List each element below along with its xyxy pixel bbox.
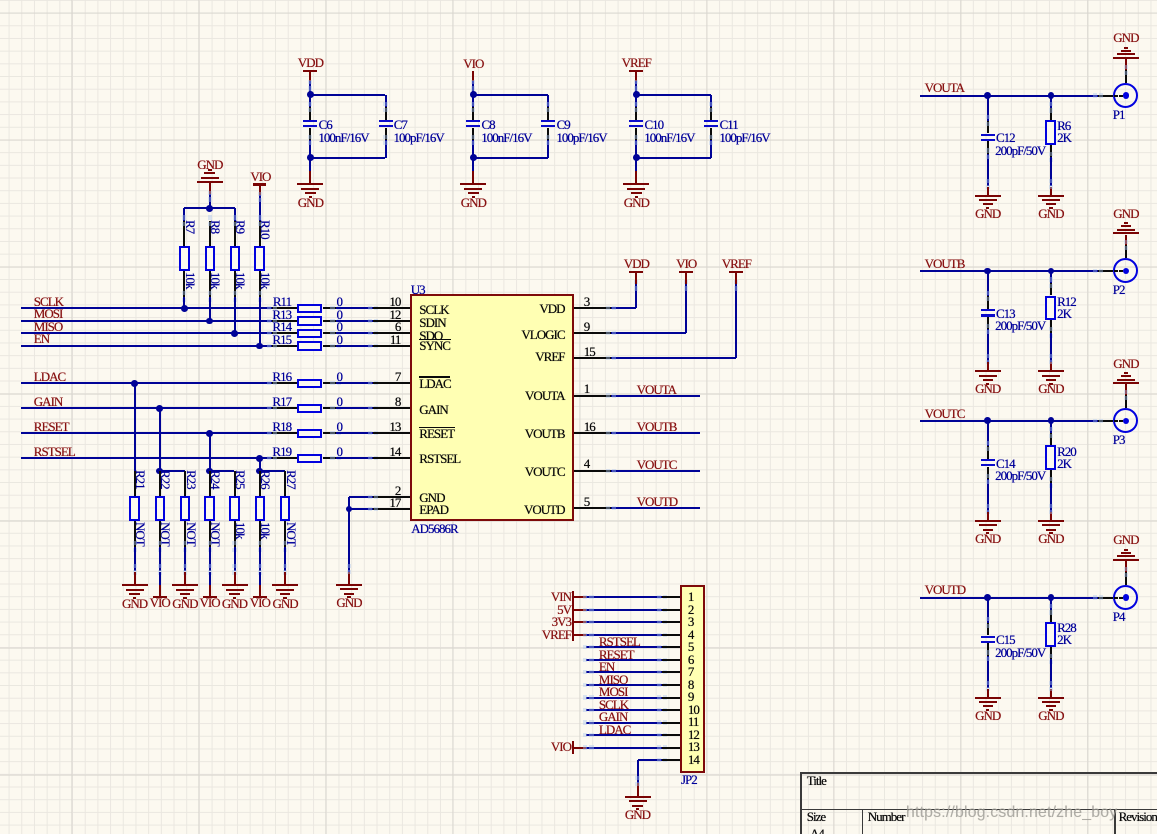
pin name VLOGIC: [475, 328, 565, 341]
pin 9 stub JP2: [662, 697, 680, 699]
wire R19 to pin 14: [336, 457, 373, 459]
ground below R20: [1038, 520, 1064, 522]
net label LDAC at JP2: [599, 723, 630, 736]
pin number 14: [360, 445, 400, 458]
net label MISO: [34, 320, 63, 333]
net label VOUTD at U3: [637, 495, 678, 508]
wire VOUTC output: [920, 420, 1098, 422]
wire R10 to row: [259, 297, 261, 346]
wire R21 to GND: [134, 547, 136, 572]
wire R27 to GND: [284, 547, 286, 572]
wire pin 9 to VIO: [611, 332, 686, 334]
resistor R8 10k: [209, 221, 211, 246]
net label MOSI at JP2: [599, 685, 628, 698]
pin name SDIN: [419, 316, 445, 329]
connector P4: [1113, 585, 1138, 610]
capacitor C13 200pF/50V: [987, 271, 989, 296]
connector P1: [1113, 83, 1138, 108]
wire R25 to GND: [234, 547, 236, 572]
wire dropper 3: [209, 433, 211, 471]
wire R28 to ground: [1050, 659, 1052, 688]
wire ground to P1: [1125, 59, 1127, 70]
wire R24 to VIO: [209, 547, 211, 572]
pin name VDD: [475, 302, 565, 315]
wire rail to ground VDD block: [309, 158, 311, 171]
wire RESET left segment: [21, 432, 272, 434]
node VOUTB res junction: [1048, 268, 1055, 275]
pin name RESET: [419, 427, 454, 440]
node VOUTD res junction: [1048, 594, 1055, 601]
pin number 13: [360, 420, 400, 433]
ground below JP2: [625, 796, 651, 798]
pin number 14 JP2: [688, 753, 699, 766]
wire R16 to pin 7: [336, 382, 373, 384]
power port VIO at JP2: [511, 740, 571, 753]
pin 7 stub U3: [373, 382, 410, 384]
pin 6 stub JP2: [662, 659, 680, 661]
pin number 7 JP2: [688, 665, 694, 678]
pin number 6 JP2: [688, 653, 694, 666]
wire C14 to ground: [987, 512, 989, 520]
net label VOUTB output: [925, 257, 965, 270]
power port VDD: [303, 70, 317, 72]
node VOUTC res junction: [1048, 417, 1055, 424]
resistor R18 0 ohm: [272, 432, 297, 434]
pin name SYNC: [419, 339, 450, 352]
wire R17 to pin 8: [336, 407, 373, 409]
ground below C8: [460, 183, 486, 185]
wire MOSI left segment: [21, 320, 272, 322]
ground below R27: [272, 584, 298, 586]
pin 4 stub U3: [574, 470, 611, 472]
wire rail to ground VREF block: [635, 158, 637, 171]
ground below C13: [975, 370, 1001, 372]
node R9 junction: [231, 330, 238, 337]
wire C15 to ground: [987, 689, 989, 697]
pin name RSTSEL: [419, 452, 460, 465]
node R8 junction: [206, 318, 213, 325]
wire VOUTA output: [920, 95, 1098, 97]
wire VIO to R10: [259, 185, 261, 195]
wire EN left segment: [21, 345, 272, 347]
ground below C6: [297, 183, 323, 185]
net label SCLK at JP2: [599, 698, 628, 711]
resistor R22 NOT: [159, 471, 161, 496]
power port 3V3 at JP2: [511, 615, 571, 628]
wire GAIN to JP2 pin 11: [586, 722, 662, 724]
pin name VOUTD: [475, 503, 565, 516]
pin number 6: [360, 320, 400, 333]
node R7 junction: [181, 305, 188, 312]
net label VOUTD output: [925, 583, 966, 596]
node dropper 2: [156, 405, 163, 412]
capacitor C14 200pF/50V: [987, 421, 989, 446]
capacitor C10: [635, 95, 637, 108]
title block labels: [807, 774, 826, 787]
net label MOSI: [34, 307, 63, 320]
wire 3V3 to JP2 pin 3: [574, 621, 586, 623]
wire R22 to VIO: [159, 547, 161, 572]
capacitor C11: [710, 95, 712, 108]
power port VIO below R22: [153, 596, 167, 598]
node VOUTA cap junction: [984, 92, 991, 99]
wire C12 to ground: [987, 187, 989, 195]
pin 1 stub JP2: [662, 596, 680, 598]
ground below R12: [1038, 370, 1064, 372]
net label MISO at JP2: [599, 673, 628, 686]
wire VIN to JP2 pin 1: [574, 596, 586, 598]
pin name VOUTB: [475, 427, 565, 440]
resistor R25 10k: [234, 471, 236, 496]
pin 3 stub U3: [574, 307, 611, 309]
pin 1 stub U3: [574, 395, 611, 397]
pin number 2 JP2: [688, 603, 694, 616]
wire JP2 pin 14 to ground: [638, 759, 663, 761]
wire VREF to rail: [635, 81, 637, 95]
wire VOUTA from U3: [611, 395, 700, 397]
power port VREF at JP2: [511, 628, 571, 641]
pin 9 stub U3: [574, 332, 611, 334]
pin 10 stub U3: [373, 307, 410, 309]
wire dropper 2: [159, 408, 161, 471]
wire R23 to GND: [184, 547, 186, 572]
pin name VOUTA: [475, 389, 565, 402]
resistor R27 NOT: [284, 471, 286, 496]
pin 11 stub JP2: [662, 722, 680, 724]
pin 4 stub JP2: [662, 634, 680, 636]
pin 13 stub U3: [373, 432, 410, 434]
wire SCLK left segment: [21, 307, 272, 309]
wire C13 to ground: [987, 362, 989, 370]
wire pin 3 to VDD: [611, 307, 636, 309]
pin 2 stub U3: [373, 496, 410, 498]
pin name SCLK: [419, 303, 448, 316]
pin number 9 JP2: [688, 690, 694, 703]
power port VIO above U3: [685, 273, 687, 284]
wire R7 to row: [183, 297, 185, 309]
resistor R12 2K: [1050, 271, 1052, 283]
net label EN at JP2: [599, 660, 614, 673]
wire VOUTD output: [920, 597, 1098, 599]
net label RSTSEL at JP2: [599, 635, 640, 648]
power port bar VIN/5V/3V3/VREF: [572, 591, 574, 641]
pin number 10: [360, 295, 400, 308]
op-amp U3 AD5686R body: [410, 294, 574, 521]
power port 5V at JP2: [511, 603, 571, 616]
power port VIO top-left: [200, 170, 320, 183]
connector JP2 body: [680, 585, 705, 773]
resistor R6 2K: [1050, 96, 1052, 108]
ground below R25: [222, 584, 248, 586]
wire LDAC to JP2 pin 12: [586, 734, 662, 736]
capacitor C7: [385, 95, 387, 108]
pin 14 stub JP2: [662, 759, 680, 761]
node rail bottom VIO: [473, 157, 548, 159]
resistor R17 0 ohm: [272, 407, 297, 409]
resistor R20 2K: [1050, 421, 1052, 433]
node rail top VIO: [473, 94, 548, 96]
resistor R23 NOT: [184, 471, 186, 496]
node R bank rail: [184, 207, 234, 209]
node R10 junction: [256, 343, 263, 350]
wire rail to ground VIO block: [472, 158, 474, 171]
pin number 12: [360, 308, 400, 321]
ground above P3: [1066, 357, 1157, 370]
pin 6 stub U3: [373, 332, 410, 334]
power port VIO: [413, 57, 533, 70]
wire dropper 1: [134, 383, 136, 471]
capacitor C8: [472, 95, 474, 108]
pin 10 stub JP2: [662, 709, 680, 711]
node dropper 1: [131, 380, 138, 387]
resistor R28 2K: [1050, 598, 1052, 610]
wire pin 2: [349, 496, 373, 498]
wire R8 to row: [209, 297, 211, 321]
resistor R13 0 ohm: [272, 320, 297, 322]
ground below U3: [336, 584, 362, 586]
wire MOSI to JP2 pin 9: [586, 697, 662, 699]
pin name VREF: [475, 350, 565, 363]
pin name GND: [419, 491, 444, 504]
ground below R21: [122, 584, 148, 586]
resistor R24 NOT: [209, 471, 211, 496]
net label LDAC: [34, 370, 65, 383]
node rail bottom VDD: [310, 157, 385, 159]
net label RSTSEL: [34, 445, 75, 458]
resistor R21 NOT: [134, 471, 136, 496]
wire pin 17: [349, 508, 373, 510]
node VOUTD cap junction: [984, 594, 991, 601]
wire link RSTSEL pair: [260, 470, 285, 472]
capacitor C9: [547, 95, 549, 108]
node dropper 3: [206, 430, 213, 437]
wire RSTSEL to JP2 pin 5: [586, 646, 662, 648]
watermark: [906, 806, 1117, 819]
wire pin 15 to VREF: [611, 357, 736, 359]
pin name GAIN: [419, 403, 448, 416]
pin 14 stub U3: [373, 457, 410, 459]
resistor R14 0 ohm: [272, 332, 297, 334]
resistor R16 0 ohm: [272, 382, 297, 384]
net label VOUTA output: [925, 81, 964, 94]
ground above P1: [1066, 31, 1157, 44]
wire link RESET pair: [210, 470, 235, 472]
resistor R10 10k: [259, 221, 261, 246]
connector P3: [1113, 408, 1138, 433]
wire ground to P4: [1125, 561, 1127, 572]
pin number 4 JP2: [688, 628, 694, 641]
pin 8 stub U3: [373, 407, 410, 409]
wire RSTSEL left segment: [21, 457, 272, 459]
power port VREF: [629, 70, 643, 72]
node VOUTC cap junction: [984, 417, 991, 424]
pin 5 stub JP2: [662, 646, 680, 648]
wire RESET to JP2 pin 6: [586, 659, 662, 661]
net label EN: [34, 332, 49, 345]
pin number 8: [360, 395, 400, 408]
resistor R15 0 ohm: [272, 345, 297, 347]
node dropper 4: [256, 455, 263, 462]
wire VOUTD from U3: [611, 507, 700, 509]
ground below C12: [975, 195, 1001, 197]
ground below C15: [975, 697, 1001, 699]
ground above P4: [1066, 533, 1157, 546]
wire R6 to ground: [1050, 157, 1052, 186]
node VOUTA res junction: [1048, 92, 1055, 99]
wire R26 to VIO: [259, 547, 261, 572]
wire ground to P3: [1125, 384, 1127, 395]
wire R15 to pin 11: [336, 345, 373, 347]
pin 15 stub U3: [574, 357, 611, 359]
pin number 11 JP2: [688, 715, 699, 728]
net label VOUTC at U3: [637, 458, 677, 471]
pin 11 stub U3: [373, 345, 410, 347]
power port VIO below R26: [253, 596, 267, 598]
pin name EPAD: [419, 503, 448, 516]
pin number 10 JP2: [688, 703, 699, 716]
node VOUTB cap junction: [984, 268, 991, 275]
wire EPAD to ground: [348, 509, 350, 572]
pin 7 stub JP2: [662, 671, 680, 673]
resistor R11 0 ohm: [272, 307, 297, 309]
node rail top VDD: [310, 94, 385, 96]
node EPAD junction: [346, 506, 353, 513]
resistor R26 10k: [259, 471, 261, 496]
pin number 13 JP2: [688, 740, 699, 753]
ground below R23: [172, 584, 198, 586]
resistor R19 0 ohm: [272, 457, 297, 459]
ground below R28: [1038, 697, 1064, 699]
ground below C10: [623, 183, 649, 185]
wire SCLK to JP2 pin 10: [586, 709, 662, 711]
wire R13 to pin 12: [336, 320, 373, 322]
ground top-left: [197, 181, 223, 183]
pin 12 stub U3: [373, 320, 410, 322]
pin name VOUTC: [475, 465, 565, 478]
node rail bottom VREF: [636, 157, 711, 159]
ground below R6: [1038, 195, 1064, 197]
wire ground to R bank rail: [209, 183, 211, 195]
pin 3 stub JP2: [662, 621, 680, 623]
net label VOUTB at U3: [637, 420, 677, 433]
pin 16 stub U3: [574, 432, 611, 434]
pin number 3 JP2: [688, 615, 694, 628]
pin 5 stub U3: [574, 507, 611, 509]
pin number 8 JP2: [688, 678, 694, 691]
wire MISO to JP2 pin 8: [586, 684, 662, 686]
net label RESET: [34, 420, 69, 433]
power port VIN at JP2: [511, 590, 571, 603]
pin number 5 JP2: [688, 640, 694, 653]
wire 5V to JP2 pin 2: [574, 609, 586, 611]
connector P2: [1113, 258, 1138, 283]
net label VOUTC output: [925, 407, 965, 420]
ground above P2: [1066, 207, 1157, 220]
wire R11 to pin 10: [336, 307, 373, 309]
wire VIO to rail: [472, 81, 474, 95]
pin name LDAC: [419, 377, 450, 390]
net label RESET at JP2: [599, 648, 634, 661]
wire R12 to ground: [1050, 333, 1052, 362]
net label GAIN: [34, 395, 63, 408]
pin number 12 JP2: [688, 728, 699, 741]
power port VREF above U3: [735, 273, 737, 284]
net label GAIN at JP2: [599, 710, 628, 723]
wire EN to JP2 pin 7: [586, 671, 662, 673]
wire LDAC left segment: [21, 382, 272, 384]
capacitor C12 200pF/50V: [987, 96, 989, 121]
wire VREF to JP2 pin 4: [574, 634, 586, 636]
pin 12 stub JP2: [662, 734, 680, 736]
capacitor C6: [309, 95, 311, 108]
resistor R7 10k: [183, 221, 185, 246]
pin number 7: [360, 370, 400, 383]
power port VIO below R24: [203, 596, 217, 598]
net label VOUTA at U3: [637, 383, 676, 396]
wire R14 to pin 6: [336, 332, 373, 334]
power port VDD above U3: [635, 273, 637, 284]
wire VOUTB output: [920, 270, 1098, 272]
wire dropper 4: [259, 458, 261, 471]
pin 13 stub JP2: [662, 747, 680, 749]
wire MISO left segment: [21, 332, 272, 334]
pin number 1 JP2: [688, 590, 694, 603]
wire VIO to JP2 pin 13: [574, 747, 586, 749]
wire R18 to pin 13: [336, 432, 373, 434]
resistor R9 10k: [234, 221, 236, 246]
net label SCLK: [34, 295, 63, 308]
title block border: [800, 772, 1157, 774]
wire VOUTB from U3: [611, 432, 700, 434]
wire R20 to ground: [1050, 483, 1052, 512]
ground below C14: [975, 520, 1001, 522]
pin 17 stub U3: [373, 508, 410, 510]
wire ground to P2: [1125, 235, 1127, 246]
node rail top VREF: [636, 94, 711, 96]
wire link GAIN pair: [160, 470, 185, 472]
pin 8 stub JP2: [662, 684, 680, 686]
pin name SDO: [419, 329, 442, 342]
capacitor C15 200pF/50V: [987, 598, 989, 623]
wire GAIN left segment: [21, 407, 272, 409]
wire VOUTC from U3: [611, 470, 700, 472]
pin number 11: [360, 333, 400, 346]
pin 2 stub JP2: [662, 609, 680, 611]
wire VDD to rail: [309, 81, 311, 95]
wire R9 to row: [234, 297, 236, 334]
